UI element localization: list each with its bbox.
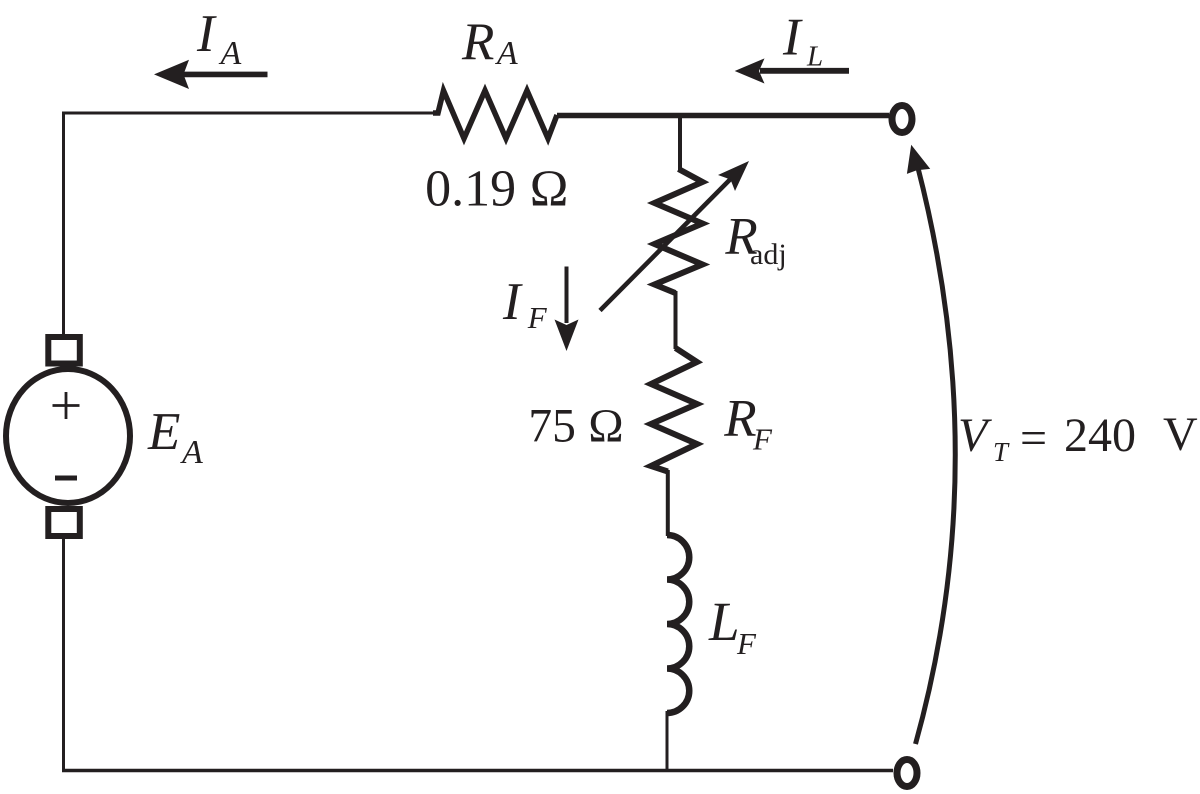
- svg-text:I: I: [196, 5, 217, 63]
- svg-text:T: T: [993, 437, 1010, 467]
- svg-text:R: R: [723, 389, 756, 447]
- svg-text:A: A: [219, 35, 242, 72]
- svg-text:I: I: [782, 9, 803, 67]
- svg-text:I: I: [502, 273, 523, 331]
- svg-text:E: E: [147, 403, 180, 461]
- svg-text:V: V: [1163, 408, 1198, 461]
- svg-text:75 Ω: 75 Ω: [528, 400, 624, 452]
- svg-text:=: =: [1020, 412, 1047, 465]
- svg-text:L: L: [806, 40, 823, 72]
- svg-text:V: V: [958, 409, 992, 462]
- svg-text:240: 240: [1064, 409, 1136, 462]
- svg-text:A: A: [495, 35, 518, 72]
- svg-text:L: L: [708, 591, 740, 652]
- svg-text:F: F: [527, 300, 548, 335]
- svg-text:adj: adj: [750, 238, 787, 271]
- svg-text:0.19 Ω: 0.19 Ω: [425, 160, 569, 217]
- svg-text:R: R: [461, 13, 494, 71]
- svg-text:F: F: [736, 626, 757, 661]
- svg-text:A: A: [180, 434, 203, 471]
- svg-text:F: F: [752, 422, 773, 457]
